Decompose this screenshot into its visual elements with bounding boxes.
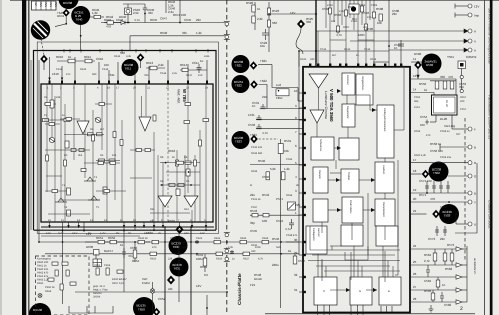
left module outer frame (34, 42, 219, 234)
junction dots feed (268, 13, 390, 52)
wire bus y35.5 (130, 35, 225, 37)
connector comb bracket (69, 306, 113, 313)
svg-text:2Vs: 2Vs (39, 2, 43, 7)
svg-text:470: 470 (430, 197, 435, 201)
test diamond M7 (297, 20, 305, 29)
svg-text:12V: 12V (196, 284, 201, 288)
U500 bottom pins (318, 305, 393, 315)
svg-text:1,2k: 1,2k (92, 11, 98, 15)
svg-text:C547: C547 (298, 259, 306, 263)
wire vertical x180 top (179, 0, 181, 23)
svg-text:R531: R531 (284, 139, 292, 143)
plug pin J2 (455, 13, 472, 18)
svg-text:R533: R533 (251, 170, 258, 173)
bus line y242 (39, 241, 299, 243)
U500 sub-block B17 (379, 277, 401, 305)
svg-text:C557: C557 (460, 108, 467, 111)
svg-text:22k: 22k (168, 258, 173, 261)
svg-text:C571 10n: C571 10n (419, 179, 432, 183)
test diamond M10 (432, 210, 440, 218)
power rail x165 (164, 227, 166, 315)
svg-text:Chassis CM 2002: Chassis CM 2002 (488, 200, 492, 228)
svg-text:560: 560 (120, 51, 125, 55)
svg-text:C556 68n: C556 68n (430, 149, 443, 153)
svg-text:19: 19 (413, 188, 417, 192)
svg-text:1k: 1k (288, 249, 292, 253)
svg-text:R611: R611 (84, 55, 91, 59)
svg-text:1,2V: 1,2V (100, 232, 106, 235)
wire M2 to T611 (133, 61, 136, 63)
svg-text:R582: R582 (445, 267, 453, 271)
U500 sub-block B11 (314, 277, 337, 305)
svg-text:330: 330 (306, 20, 311, 24)
svg-text:Treiber: Treiber (347, 172, 350, 180)
svg-text:R3: R3 (90, 128, 94, 131)
op-amp A5 (309, 74, 328, 88)
IC U610 box (vertical module) (41, 84, 213, 222)
svg-text:22p: 22p (363, 26, 368, 29)
svg-text:L610: L610 (52, 72, 59, 76)
svg-text:Laufzeit: Laufzeit (382, 165, 385, 174)
svg-text:47n: 47n (66, 73, 71, 76)
transistor T610 (striped) (31, 20, 50, 39)
transistor symbol Q4 (84, 177, 96, 181)
svg-text:4,7n: 4,7n (262, 131, 268, 135)
svg-text:30: 30 (294, 238, 298, 242)
chassis connector P1 (224, 22, 230, 26)
svg-text:P660 5k: P660 5k (45, 286, 55, 289)
svg-text:Vert.-Abl.: Vert.-Abl. (177, 89, 181, 104)
transistor symbol Q1 (95, 117, 101, 122)
geprueft text block (93, 285, 108, 299)
svg-text:27: 27 (413, 285, 417, 289)
svg-text:P531 1k: P531 1k (251, 198, 261, 201)
left heavy fold bar (22, 0, 26, 315)
chassis connector P3 (224, 233, 230, 237)
label cluster DL area (414, 96, 467, 159)
svg-text:R558 1k: R558 1k (430, 142, 442, 146)
pot box P640 (125, 8, 132, 15)
resistor R552 (443, 81, 447, 89)
resistor R614 (182, 68, 188, 71)
resistor R562 (443, 249, 447, 265)
test diamond M6 (250, 135, 258, 143)
svg-text:4k7: 4k7 (100, 128, 105, 131)
bus line y230 (34, 229, 217, 231)
connector arrow K4 (456, 275, 467, 279)
svg-text:10n: 10n (182, 246, 187, 249)
svg-text:2k: 2k (297, 203, 301, 207)
svg-text:2,2u: 2,2u (172, 72, 178, 75)
svg-text:17: 17 (413, 158, 417, 162)
svg-text:10n: 10n (420, 123, 425, 127)
svg-text:R540: R540 (258, 159, 266, 163)
module top pin row (64, 49, 208, 53)
svg-text:P630: P630 (168, 219, 175, 223)
svg-text:1n: 1n (442, 283, 446, 287)
frame rail x477 (455, 163, 477, 233)
svg-text:F: F (474, 128, 476, 132)
svg-text:R615: R615 (80, 68, 87, 71)
svg-text:R8: R8 (160, 156, 164, 159)
wire y202 (411, 201, 468, 203)
svg-text:Endst: Endst (142, 281, 150, 285)
svg-text:R6: R6 (100, 154, 104, 157)
svg-text:2k2: 2k2 (78, 154, 83, 157)
plug pin J3 (464, 29, 472, 33)
capacitor C533 (257, 124, 262, 129)
wire y215 (250, 214, 303, 216)
svg-text:D641: D641 (57, 14, 65, 18)
svg-text:560: 560 (272, 21, 277, 25)
resistor R501 (379, 14, 382, 21)
U500 sub-block B4 (339, 138, 359, 160)
svg-text:R610: R610 (56, 55, 64, 59)
capacitor C532 (257, 115, 262, 120)
svg-text:R1: R1 (44, 96, 48, 99)
svg-text:B: B (388, 290, 390, 293)
resistor R543 (252, 214, 258, 217)
resistor R523 (267, 8, 270, 15)
dashed module components (48, 262, 76, 290)
transistor T642 (71, 6, 90, 25)
svg-text:C536: C536 (286, 158, 293, 161)
diode D630 (94, 250, 100, 256)
svg-text:Farbbaustein 29504-102.51: Farbbaustein 29504-102.51 (488, 95, 492, 139)
svg-text:32: 32 (294, 273, 298, 277)
svg-text:560: 560 (276, 246, 281, 249)
svg-text:B: B (474, 146, 476, 150)
svg-text:Verz.Ltg: Verz.Ltg (444, 124, 455, 128)
svg-text:33n: 33n (148, 11, 153, 15)
U500 sub-block B9 (306, 226, 327, 254)
capacitor C621 (195, 240, 199, 244)
test diamond M1 (63, 9, 70, 17)
label cluster plugs (474, 5, 479, 227)
svg-text:12V: 12V (200, 232, 205, 235)
plug pin J4 (464, 39, 472, 43)
top field drops (318, 31, 374, 64)
svg-text:DL20: DL20 (440, 117, 448, 121)
svg-text:R503: R503 (334, 13, 342, 17)
svg-text:T621: T621 (260, 59, 267, 63)
svg-text:C647: C647 (160, 17, 168, 21)
power rail x191 (190, 227, 192, 315)
plug pin J10 (468, 191, 472, 195)
U500 sub-block B1 (342, 73, 355, 95)
svg-text:22u: 22u (250, 193, 255, 197)
svg-text:n.F: n.F (456, 132, 461, 136)
transistor T501 (422, 54, 442, 74)
svg-text:R543: R543 (250, 209, 258, 213)
svg-text:C554: C554 (420, 115, 428, 119)
wire x295 (294, 254, 296, 256)
svg-text:Farbsperre: Farbsperre (312, 228, 315, 241)
transistor T651 (cut by page bottom) (29, 303, 51, 315)
svg-text:10n: 10n (104, 63, 109, 67)
svg-text:C555: C555 (414, 96, 421, 99)
svg-text:D502: D502 (414, 52, 422, 56)
svg-text:R647 100: R647 100 (173, 13, 186, 17)
svg-text:100n: 100n (358, 33, 365, 37)
right page border (483, 0, 486, 315)
svg-text:C559 22u: C559 22u (440, 156, 452, 159)
plug pin J8 (468, 161, 472, 165)
svg-text:D502: D502 (426, 63, 434, 67)
wire y81 (430, 80, 456, 82)
U500 sub-block B8 (342, 197, 363, 223)
svg-text:G: G (359, 290, 361, 293)
svg-text:besch: besch (254, 277, 262, 281)
resistor R654v (203, 254, 207, 272)
wire Y1 drop (460, 69, 463, 94)
wire vertical x166 top (165, 0, 167, 13)
svg-text:R571: R571 (419, 193, 427, 197)
wire y79 delay loop top (411, 79, 456, 95)
resistor R652 (110, 240, 117, 243)
svg-text:10k: 10k (377, 21, 382, 25)
label cluster top field lower (300, 48, 377, 61)
U500 bus x299 (298, 51, 300, 255)
svg-text:4,7n: 4,7n (336, 33, 342, 37)
svg-text:C533: C533 (248, 123, 256, 127)
chassis connector P5 (224, 257, 230, 261)
capacitor C611 (197, 64, 202, 73)
capacitor C562 (440, 292, 444, 302)
svg-text:C581: C581 (424, 279, 432, 283)
label strip above U610 (56, 55, 210, 77)
transistor symbol Q2 (49, 137, 55, 142)
svg-text:4,7k: 4,7k (258, 258, 264, 261)
svg-text:L501: L501 (348, 5, 355, 9)
svg-text:C558 1n: C558 1n (440, 130, 450, 133)
left rail x39 (38, 60, 40, 242)
svg-text:C4: C4 (184, 156, 188, 159)
svg-text:1,2k: 1,2k (284, 167, 290, 171)
svg-text:F21: F21 (250, 283, 256, 287)
svg-text:10: 10 (294, 89, 298, 93)
IC U610 internal components (43, 100, 192, 216)
svg-text:24V: 24V (184, 232, 189, 235)
wire x124 drop (123, 230, 125, 292)
wire y277 (411, 276, 456, 278)
svg-text:R560 2,2k: R560 2,2k (414, 154, 427, 157)
U500 sub-block B3 (311, 137, 334, 160)
svg-text:2Vs: 2Vs (54, 2, 58, 7)
svg-text:R512: R512 (344, 48, 351, 51)
wire y242 stub (286, 241, 299, 243)
svg-text:1k: 1k (150, 219, 154, 223)
svg-text:C512: C512 (320, 48, 327, 51)
svg-text:T503: T503 (444, 214, 451, 218)
svg-text:C611: C611 (192, 61, 199, 65)
capacitor C561 (426, 265, 430, 277)
wire x255 top (254, 2, 256, 30)
svg-text:Farbsynchronisation: Farbsynchronisation (383, 108, 386, 132)
svg-text:2,2k: 2,2k (158, 63, 164, 67)
resistor R612 (85, 59, 92, 63)
chassis connector P2 (224, 35, 230, 40)
svg-text:5,6k: 5,6k (270, 167, 276, 171)
page left scan edge (0, 0, 2, 315)
wire x62 bottom (62, 230, 64, 304)
svg-text:10k: 10k (284, 149, 289, 153)
op-amp A4 (184, 196, 198, 207)
plug pin J5 (464, 48, 472, 52)
U500 sub-block B12 (350, 277, 372, 305)
wire M8 drop (417, 69, 419, 79)
resistor R521 (252, 5, 255, 12)
transistor symbol Q5 (88, 196, 100, 200)
capacitor C522 (262, 29, 269, 40)
wire stub M2 (140, 62, 142, 68)
svg-text:LL8: LL8 (276, 83, 281, 87)
svg-text:Service-Hinweise und Abgleichp: Service-Hinweise und Abgleichplan (488, 8, 492, 64)
svg-text:470: 470 (152, 246, 157, 249)
svg-text:L611: L611 (204, 55, 210, 58)
wire y163 (411, 162, 468, 164)
label cluster mid bottom (146, 149, 176, 301)
connector arrow K2 (456, 247, 467, 251)
U610 pin numbers top (47, 87, 208, 90)
svg-text:22n: 22n (440, 237, 445, 241)
svg-text:C650: C650 (130, 246, 138, 250)
U500 RGB routing mesh (308, 226, 400, 277)
svg-text:Demodulator: Demodulator (382, 202, 385, 217)
resistor R553 (450, 81, 454, 89)
svg-text:Austast: Austast (317, 228, 320, 237)
IC U500 main box (303, 67, 410, 313)
svg-text:4,7u: 4,7u (285, 227, 291, 231)
resistor R651 (98, 240, 105, 243)
svg-text:L502: L502 (327, 4, 333, 7)
junction dots row y242 (134, 241, 282, 255)
wire x299 drop (298, 51, 300, 67)
diamond M7 tail (296, 29, 303, 55)
svg-text:Filter: Filter (276, 96, 283, 100)
wire y119 (256, 118, 303, 120)
resistor R541 (266, 172, 270, 180)
svg-text:C505: C505 (351, 20, 358, 23)
svg-text:R626: R626 (216, 258, 223, 261)
relay box K1 (349, 4, 359, 14)
dashed rail x465 (464, 118, 466, 262)
svg-text:T623: T623 (250, 133, 257, 137)
transistor T622 (232, 75, 250, 93)
svg-text:R645: R645 (150, 18, 158, 22)
resistor R613 (150, 66, 157, 70)
svg-text:Schwarzw.: Schwarzw. (319, 139, 322, 152)
connector arrow K3 (456, 263, 467, 267)
svg-text:C514: C514 (364, 48, 371, 51)
wire x179 bottom chain (178, 234, 180, 302)
svg-text:12V: 12V (46, 232, 51, 235)
svg-text:2,5k: 2,5k (133, 11, 139, 15)
svg-text:R514: R514 (370, 58, 377, 61)
wire T502 net (411, 163, 468, 176)
wire T642 collector drop (80, 25, 82, 51)
label row under U610 (46, 232, 205, 235)
svg-text:2Vs: 2Vs (49, 2, 53, 7)
U500 left pins (299, 93, 303, 292)
svg-text:10k: 10k (112, 154, 117, 157)
top dense rail field (326, 0, 374, 40)
wire x389 top (388, 0, 390, 67)
plug pin J12 (468, 222, 472, 226)
wire x96 drop (95, 254, 97, 259)
wire y165 (250, 164, 303, 166)
socket X2 wires (152, 282, 154, 313)
svg-text:8,8MHz: 8,8MHz (466, 55, 477, 59)
capacitor C650 (122, 248, 126, 258)
svg-text:C538 47n: C538 47n (286, 234, 298, 237)
delay line DL1 (432, 95, 458, 115)
bottom-left dashed module frame (36, 256, 90, 315)
resistor R620 (138, 240, 150, 243)
transistor T611 (122, 59, 139, 76)
svg-text:C545: C545 (250, 229, 258, 233)
U500 sub-block B5 (313, 167, 328, 193)
wire x281 down (280, 154, 282, 309)
IC U610 bottom pins (50, 222, 207, 232)
svg-text:Luminanz Chroma: Luminanz Chroma (324, 91, 328, 119)
label cluster mid left of U500 (248, 59, 306, 287)
page bottom edge line (265, 313, 475, 314)
resistor R626 (216, 252, 223, 255)
svg-text:22n: 22n (196, 18, 201, 22)
svg-text:R507: R507 (343, 26, 350, 29)
svg-text:T502: T502 (433, 171, 440, 175)
svg-text:C613: C613 (102, 68, 109, 71)
resistor R524 (267, 20, 270, 27)
svg-text:R523: R523 (272, 9, 280, 13)
test diamond M8 (414, 61, 422, 69)
op-amp A3 (158, 196, 172, 207)
svg-text:14: 14 (413, 88, 417, 92)
svg-text:330: 330 (251, 250, 256, 253)
wire T503 net (411, 214, 468, 224)
plug pin J6 (452, 127, 472, 131)
svg-text:BD136: BD136 (33, 308, 43, 312)
svg-text:T640: T640 (76, 18, 83, 22)
resistor R627 (243, 252, 250, 255)
transistor T630 (169, 236, 188, 255)
svg-text:R651: R651 (96, 236, 104, 240)
label cluster U500 pins left (294, 89, 298, 292)
svg-text:C652: C652 (158, 297, 166, 301)
capacitor C623 (230, 250, 234, 254)
resistor R655v (133, 242, 137, 262)
label block vert drive (160, 0, 186, 20)
U500 sub-block B16 (376, 226, 398, 246)
svg-text:R657 0,15: R657 0,15 (112, 282, 125, 285)
wire M6 dashed link (259, 138, 278, 140)
svg-text:10k: 10k (331, 20, 336, 23)
svg-text:R654: R654 (132, 259, 140, 263)
resistor R551 (435, 81, 439, 89)
svg-text:R546: R546 (272, 237, 280, 241)
svg-text:21: 21 (413, 209, 417, 213)
svg-text:28: 28 (413, 297, 417, 301)
wire y41 to plug (350, 40, 468, 42)
svg-text:1k: 1k (120, 243, 124, 247)
crystal box Y1 (458, 61, 466, 69)
U500 left pin squares (303, 92, 306, 293)
label cluster top field upper (327, 4, 378, 29)
svg-text:1k: 1k (68, 55, 72, 59)
wire x207 bottom (206, 295, 208, 315)
svg-text:C643: C643 (116, 18, 124, 22)
